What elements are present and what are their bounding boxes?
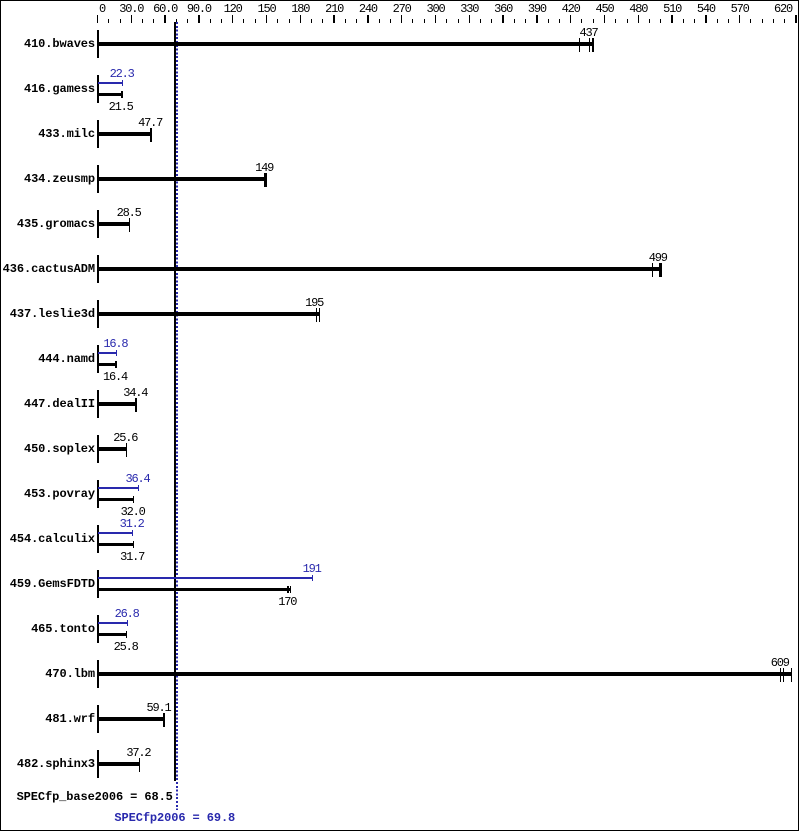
- row 482.sphinx3: [0, 758, 95, 771]
- row 454.calculix: [0, 533, 95, 546]
- row 435.gromacs: [0, 218, 95, 231]
- row 434.zeusmp: [0, 173, 95, 186]
- row 437.leslie3d: [0, 308, 95, 321]
- row 436.cactusADM: [0, 263, 95, 276]
- row 450.soplex: [0, 443, 95, 456]
- x axis scale (top ruler): [97, 15, 99, 23]
- row 465.tonto: [0, 623, 95, 636]
- SPECfp2006 summary label: [114, 812, 235, 825]
- row 447.dealII: [0, 398, 95, 411]
- row 459.GemsFDTD: [0, 578, 95, 591]
- SPECfp2006 mean line (69.8, dotted blue): [176, 22, 178, 810]
- row 410.bwaves: [0, 38, 95, 51]
- SPECfp_base2006 mean line (68.5, solid black): [174, 22, 176, 781]
- row 433.milc: [0, 128, 95, 141]
- row 444.namd: [0, 353, 95, 366]
- row 453.povray: [0, 488, 95, 501]
- row 481.wrf: [0, 713, 95, 726]
- row 416.gamess: [0, 83, 95, 96]
- row 470.lbm: [0, 668, 95, 681]
- SPECfp_base2006 summary label: [0, 791, 173, 804]
